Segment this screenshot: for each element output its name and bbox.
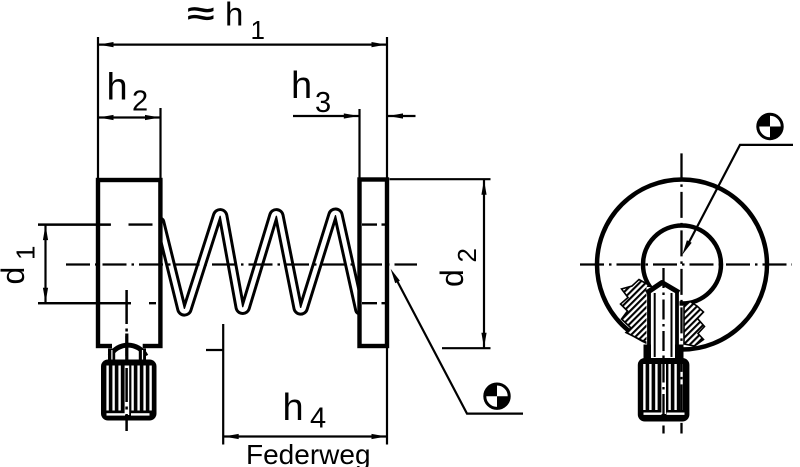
collar block right	[139, 349, 146, 361]
dim d2: dimension line	[483, 179, 485, 348]
label d1 (rotated)	[0, 246, 41, 285]
spring (coil between plates)	[160, 213, 360, 312]
dim h3: extension line left	[358, 109, 360, 180]
svg-text:3: 3	[315, 87, 331, 119]
dim h1: extension line left	[97, 37, 99, 180]
datum target symbol (right view)	[757, 113, 783, 139]
dim d1: extension line bottom	[38, 302, 131, 304]
hidden hole line lower (right plate)	[362, 302, 386, 304]
horizontal centerline (right view)	[580, 263, 792, 265]
dim d2: extension line top	[390, 178, 491, 180]
ring vertical centerline	[680, 153, 682, 433]
dim h4: arrow right	[372, 434, 387, 439]
dim d1: extension line top	[38, 224, 111, 226]
stud chamfer point (roof)	[647, 283, 680, 294]
leader (right view) to datum symbol	[682, 145, 793, 255]
dome window (white gap in plate bottom edge)	[112, 338, 143, 360]
dim h3: arrow left (pointing right)	[344, 113, 359, 118]
dim h4: extension line left with tick	[206, 324, 223, 445]
dim d1: arrow up	[43, 225, 48, 240]
svg-text:4: 4	[310, 403, 326, 435]
collar blocks (right view)	[644, 345, 684, 359]
dome center bar (centerline through dome)	[125, 334, 128, 361]
svg-text:2: 2	[452, 248, 482, 262]
dim h1: extension line right (full height, also h3/h4/d2)	[386, 37, 388, 445]
leader (left view) to datum symbol	[391, 269, 523, 414]
svg-text:1: 1	[251, 15, 265, 45]
dim h2: arrow right	[145, 115, 160, 120]
stud vertical centerline	[662, 268, 664, 434]
thread root lines	[655, 293, 672, 357]
horizontal centerline (left view)	[66, 263, 417, 265]
knob dome arc	[110, 345, 146, 356]
hatched break-out left	[621, 280, 649, 344]
svg-text:h: h	[225, 0, 243, 33]
outer ring circle	[597, 180, 767, 350]
svg-text:h: h	[107, 67, 128, 109]
svg-text:1: 1	[11, 246, 41, 260]
svg-text:h: h	[291, 65, 312, 107]
dim h3: dimension line + tails	[293, 115, 416, 117]
dim h1: arrow left	[99, 42, 114, 47]
left plate (flange, side view)	[98, 180, 160, 346]
svg-text:≈: ≈	[187, 0, 215, 32]
svg-text:Federweg: Federweg	[246, 439, 371, 467]
threaded stud (right view)	[647, 283, 680, 359]
hidden hole line upper (right plate)	[362, 223, 386, 225]
dim h1: dimension line	[98, 43, 387, 45]
dim h2: arrow left	[99, 115, 114, 120]
dim d2: extension line bottom	[442, 347, 491, 349]
svg-text:h: h	[283, 387, 304, 429]
dim h2: extension line right	[159, 108, 161, 180]
hidden hole line upper (left plate)	[38, 223, 153, 225]
collar block left	[108, 349, 115, 361]
dim h4: dimension line	[223, 435, 387, 437]
svg-text:d: d	[434, 269, 470, 287]
dim h3: arrow right (pointing left)	[388, 113, 403, 118]
hatched break-out right	[684, 302, 705, 347]
dim h2: dimension line	[98, 116, 161, 118]
right plate (washer, side view)	[360, 180, 388, 347]
inner hole circle	[643, 226, 721, 304]
dim h1: arrow right	[372, 42, 387, 47]
dim d2: arrow up	[481, 180, 486, 195]
label d2 (rotated)	[434, 248, 482, 287]
collar block slivers	[111, 350, 112, 360]
dim d1: dimension line	[44, 225, 46, 304]
knurled knob (left view)	[101, 360, 157, 421]
hidden hole line lower (left plate)	[38, 302, 156, 304]
datum target symbol (left view)	[484, 383, 510, 409]
svg-text:d: d	[0, 267, 31, 285]
dim d2: arrow down	[481, 333, 486, 348]
dim d1: arrow down	[43, 288, 48, 303]
svg-text:2: 2	[132, 86, 148, 118]
knob vertical centerline (left view)	[125, 290, 128, 431]
knurled knob (right view)	[638, 358, 690, 422]
dim h4: arrow left	[224, 434, 239, 439]
